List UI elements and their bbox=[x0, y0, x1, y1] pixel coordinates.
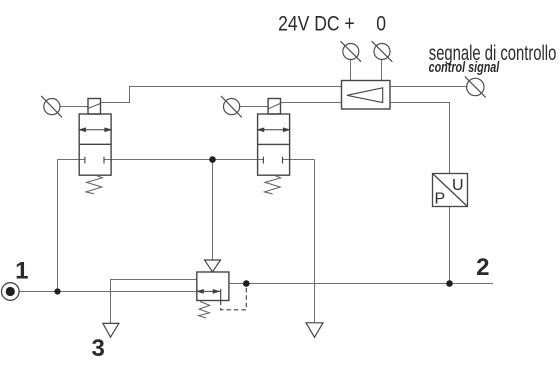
svg-text:P: P bbox=[435, 191, 446, 208]
svg-text:control signal: control signal bbox=[429, 59, 500, 76]
svg-text:1: 1 bbox=[15, 257, 28, 284]
svg-text:3: 3 bbox=[92, 335, 105, 362]
svg-text:24V DC +: 24V DC + bbox=[278, 13, 355, 36]
svg-text:2: 2 bbox=[476, 254, 489, 281]
svg-text:U: U bbox=[452, 177, 464, 194]
svg-text:0: 0 bbox=[376, 13, 386, 36]
